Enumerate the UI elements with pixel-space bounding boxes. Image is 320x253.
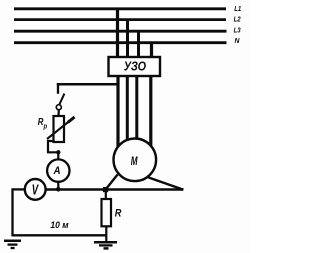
svg-text:A: A bbox=[53, 164, 61, 177]
svg-text:10 м: 10 м bbox=[50, 220, 69, 230]
svg-text:R: R bbox=[115, 208, 122, 220]
svg-text:L2: L2 bbox=[234, 16, 241, 24]
svg-text:УЗО: УЗО bbox=[124, 59, 147, 74]
svg-text:N: N bbox=[235, 36, 241, 45]
svg-text:M: M bbox=[131, 156, 138, 169]
svg-text:L3: L3 bbox=[234, 27, 241, 35]
svg-text:p: p bbox=[43, 123, 48, 131]
svg-text:L1: L1 bbox=[234, 5, 241, 13]
